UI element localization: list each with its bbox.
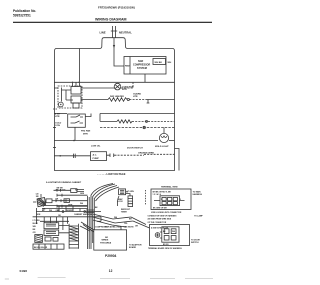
harness fanout diagonals right (93, 214, 133, 227)
door switch symbol (107, 154, 145, 158)
svg-text:LT GRN: LT GRN (127, 191, 135, 193)
condenser fan motor circle (114, 83, 121, 90)
svg-text:WH BK: WH BK (155, 62, 163, 64)
svg-text:DOOR SWITCH: DOOR SWITCH (127, 148, 143, 150)
svg-text:FRT21NRGW0 (P1193101W): FRT21NRGW0 (P1193101W) (98, 6, 135, 10)
wire left border stub y=88 (54, 87, 58, 89)
svg-text:BK WH GN OR: BK WH GN OR (34, 247, 48, 249)
wire left border stub y=147.5 (53, 147, 56, 149)
small junction blocks (45, 237, 51, 241)
svg-text:12: 12 (109, 269, 113, 273)
svg-text:P29904: P29904 (105, 254, 117, 258)
cold control box (68, 114, 86, 127)
wire cold box to row140 (74, 127, 76, 140)
extra wire labels (58, 193, 98, 217)
svg-text:FRZ FAN: FRZ FAN (81, 130, 91, 133)
svg-text:WH: WH (80, 203, 84, 205)
wire left border stub y=109 (53, 108, 58, 110)
wire timer internals (62, 88, 74, 102)
svg-text:LT GRN: LT GRN (33, 220, 41, 222)
svg-text:OR: OR (33, 232, 36, 234)
left mid cluster (36, 189, 84, 217)
middle connector stack (117, 189, 132, 207)
svg-text:5995327551: 5995327551 (13, 14, 31, 18)
small box right of blob (46, 199, 52, 203)
second row (40, 220, 101, 222)
pump box (91, 152, 107, 161)
left row 2 wires (56, 199, 88, 202)
harness top curves (91, 184, 119, 202)
compressor box (124, 57, 166, 75)
junction ticks on bundle (86, 210, 94, 213)
svg-text:WH: WH (172, 231, 176, 233)
svg-text:TO DOOR: TO DOOR (191, 240, 200, 242)
wire cold control up (85, 114, 91, 117)
model number text (98, 6, 135, 10)
svg-text:BR: BR (129, 219, 132, 221)
svg-text:CON: CON (55, 125, 60, 127)
svg-text:THIS AREA: THIS AREA (100, 241, 112, 244)
wire right bottom loop (175, 149, 180, 171)
wire row y=83 (54, 81, 175, 83)
wire drop to bottom box (101, 217, 121, 230)
svg-text:PUMP: PUMP (93, 158, 100, 160)
label right of box1 (193, 191, 203, 197)
svg-text:LOW OIL: LOW OIL (91, 146, 101, 148)
wiring diagram title (95, 18, 127, 22)
svg-text:4 WT: 4 WT (55, 113, 61, 116)
connector view box 1 (151, 189, 191, 210)
junction row upper (36, 211, 101, 213)
left lower box 1 (44, 223, 59, 229)
connector view box 2 (150, 225, 190, 246)
svg-text:COLD: COLD (55, 123, 62, 125)
ladder terminal strip (69, 224, 78, 249)
svg-text:TERMINAL VIEW: TERMINAL VIEW (161, 185, 178, 188)
harness bundle vertical (88, 195, 95, 249)
power plug prongs (111, 26, 124, 66)
svg-text:LOCK: LOCK (117, 201, 123, 203)
svg-text:5: 5 (161, 199, 162, 201)
svg-text:ILLUSTRATIVE DRAWING CABINET: ILLUSTRATIVE DRAWING CABINET (46, 181, 82, 184)
wire row y=113.5 (100, 113, 175, 115)
svg-text:SEE NOTE: SEE NOTE (124, 227, 135, 229)
bottom-left terminal row (33, 244, 64, 249)
svg-text:SWITCH: SWITCH (191, 242, 199, 244)
label FRZ FAN MTR (81, 130, 91, 136)
timer contact box 3 (73, 103, 79, 108)
hatch bar (35, 235, 43, 243)
wire compressor bottom drop (144, 74, 146, 82)
wire row y=155.8 left (54, 155, 91, 157)
main schematic outer border with plug bump (55, 38, 175, 171)
svg-text:NEUTRAL: NEUTRAL (119, 30, 132, 34)
bottom center big box (94, 230, 127, 250)
svg-text:CONNECTOR VIEW OF HARNESS: CONNECTOR VIEW OF HARNESS (148, 214, 178, 217)
svg-text:A SEE NOTE BELOW: A SEE NOTE BELOW (151, 227, 168, 230)
svg-text:RED: RED (125, 66, 130, 68)
svg-text:WH: WH (33, 226, 37, 228)
long junction row (33, 216, 101, 218)
connector 2 header texts (148, 214, 204, 223)
svg-text:MTR: MTR (122, 89, 127, 91)
svg-text:MOLD LIGHT: MOLD LIGHT (155, 146, 169, 148)
svg-text:BOARD: BOARD (129, 246, 137, 249)
svg-text:Publication No.: Publication No. (13, 9, 36, 13)
svg-text:MTR: MTR (83, 134, 88, 136)
wire row y=140 (54, 140, 158, 142)
svg-text:AS SEEN FROM WIRE SIDE: AS SEEN FROM WIRE SIDE (148, 218, 172, 221)
header rule (13, 21, 212, 23)
wire dashed row y=127.5 (100, 127, 175, 129)
svg-text:GUARD: GUARD (133, 93, 141, 96)
svg-text:BLUE: BLUE (33, 223, 39, 225)
svg-text:SW: SW (36, 196, 39, 198)
svg-text:OF THE CONNECTOR: OF THE CONNECTOR (148, 222, 167, 224)
connector 2 inner boxes (160, 227, 179, 242)
svg-text:NO: NO (105, 237, 109, 239)
wire timer cluster to fan motor (81, 87, 115, 89)
svg-text:YEL: YEL (124, 223, 129, 225)
defrost timer dashed enclosure (58, 86, 82, 108)
capacitor ticks (74, 154, 76, 158)
svg-text:LINE: LINE (100, 30, 106, 34)
svg-text:HTR: HTR (55, 116, 60, 118)
svg-text:BK: BK (163, 231, 166, 233)
junction circle on dashed row (143, 126, 145, 128)
label 4WT HTR (55, 113, 61, 119)
wires from boxes to ladder (59, 226, 69, 233)
label COND FAN (122, 86, 134, 92)
publication number text (13, 9, 36, 18)
mullion heater wavy (100, 120, 175, 123)
svg-text:A.C.: A.C. (93, 153, 98, 156)
svg-text:COMPRESSOR AREA VIEW: COMPRESSOR AREA VIEW (95, 226, 121, 229)
svg-text:BK: BK (33, 229, 36, 231)
harness to box diagonals (80, 222, 94, 232)
svg-text:TERMINAL BOARD VIEW OF HARNESS: TERMINAL BOARD VIEW OF HARNESS (148, 247, 183, 250)
svg-text:TO LAMP: TO LAMP (194, 214, 203, 217)
label GUARD HTR (133, 93, 141, 99)
svg-text:BK: BK (95, 207, 98, 209)
left row labels (56, 190, 79, 213)
svg-text:SYSTEM: SYSTEM (137, 67, 147, 70)
label right of big box (129, 244, 142, 250)
junction cluster labels (105, 217, 138, 228)
wire left border stub y=127.5 (53, 127, 56, 129)
svg-text:HTR: HTR (133, 96, 138, 98)
label COLD CON (55, 123, 62, 128)
hatched motor blob (33, 194, 46, 207)
svg-text:HARNESS: HARNESS (193, 193, 203, 196)
svg-text:WIRING DIAGRAM: WIRING DIAGRAM (95, 18, 127, 22)
svg-text:WIRES: WIRES (102, 240, 109, 242)
wire from top border down at x=79 (78, 49, 80, 87)
wire riser to mullion wavy (99, 114, 101, 122)
wire left of connector box1 (145, 190, 147, 205)
left text stack (33, 220, 41, 234)
wire cluster risers (73, 82, 77, 86)
svg-text:WH: WH (168, 62, 172, 64)
timer motor circle (58, 102, 63, 107)
interior light lamp (159, 128, 168, 143)
svg-text:BK GRN OR WH: BK GRN OR WH (153, 207, 167, 209)
connector 1 inner boxes (154, 196, 185, 206)
svg-text:CABINET HARNESS: CABINET HARNESS (74, 213, 93, 216)
svg-text:04/96: 04/96 (20, 269, 28, 273)
svg-text:GRN: GRN (66, 210, 71, 212)
drops from junction row (36, 217, 67, 226)
svg-text:BR OR: BR OR (163, 244, 169, 246)
wire rows to bundle (42, 202, 88, 209)
cold control contacts (71, 115, 84, 123)
left row 1 wires (57, 194, 88, 197)
svg-text:2: 2 (180, 199, 181, 201)
svg-text:TO MAIN: TO MAIN (193, 191, 202, 194)
left row 3 wires (57, 205, 88, 208)
svg-text:BK WH: BK WH (57, 188, 64, 190)
svg-text:TIMER: TIMER (121, 211, 128, 213)
wire fan motor to junction (121, 82, 133, 88)
timer contact box 2 (71, 96, 81, 103)
connector 2 circle (155, 233, 160, 238)
label right of box2 (191, 240, 200, 245)
defrost heater row (81, 98, 175, 103)
svg-text:GRN: GRN (80, 193, 85, 195)
timer contact box 1 (71, 87, 81, 95)
svg-text:- - - - - - LOW VOLTAGE: - - - - - - LOW VOLTAGE (97, 172, 126, 176)
svg-text:VIEW LOOKING INTO CONNECTOR: VIEW LOOKING INTO CONNECTOR (151, 212, 182, 214)
left lower box 2 (44, 230, 59, 236)
svg-text:DEF HEATER: DEF HEATER (110, 95, 124, 98)
svg-text:OR: OR (135, 226, 138, 228)
footer faint rule (38, 276, 66, 278)
